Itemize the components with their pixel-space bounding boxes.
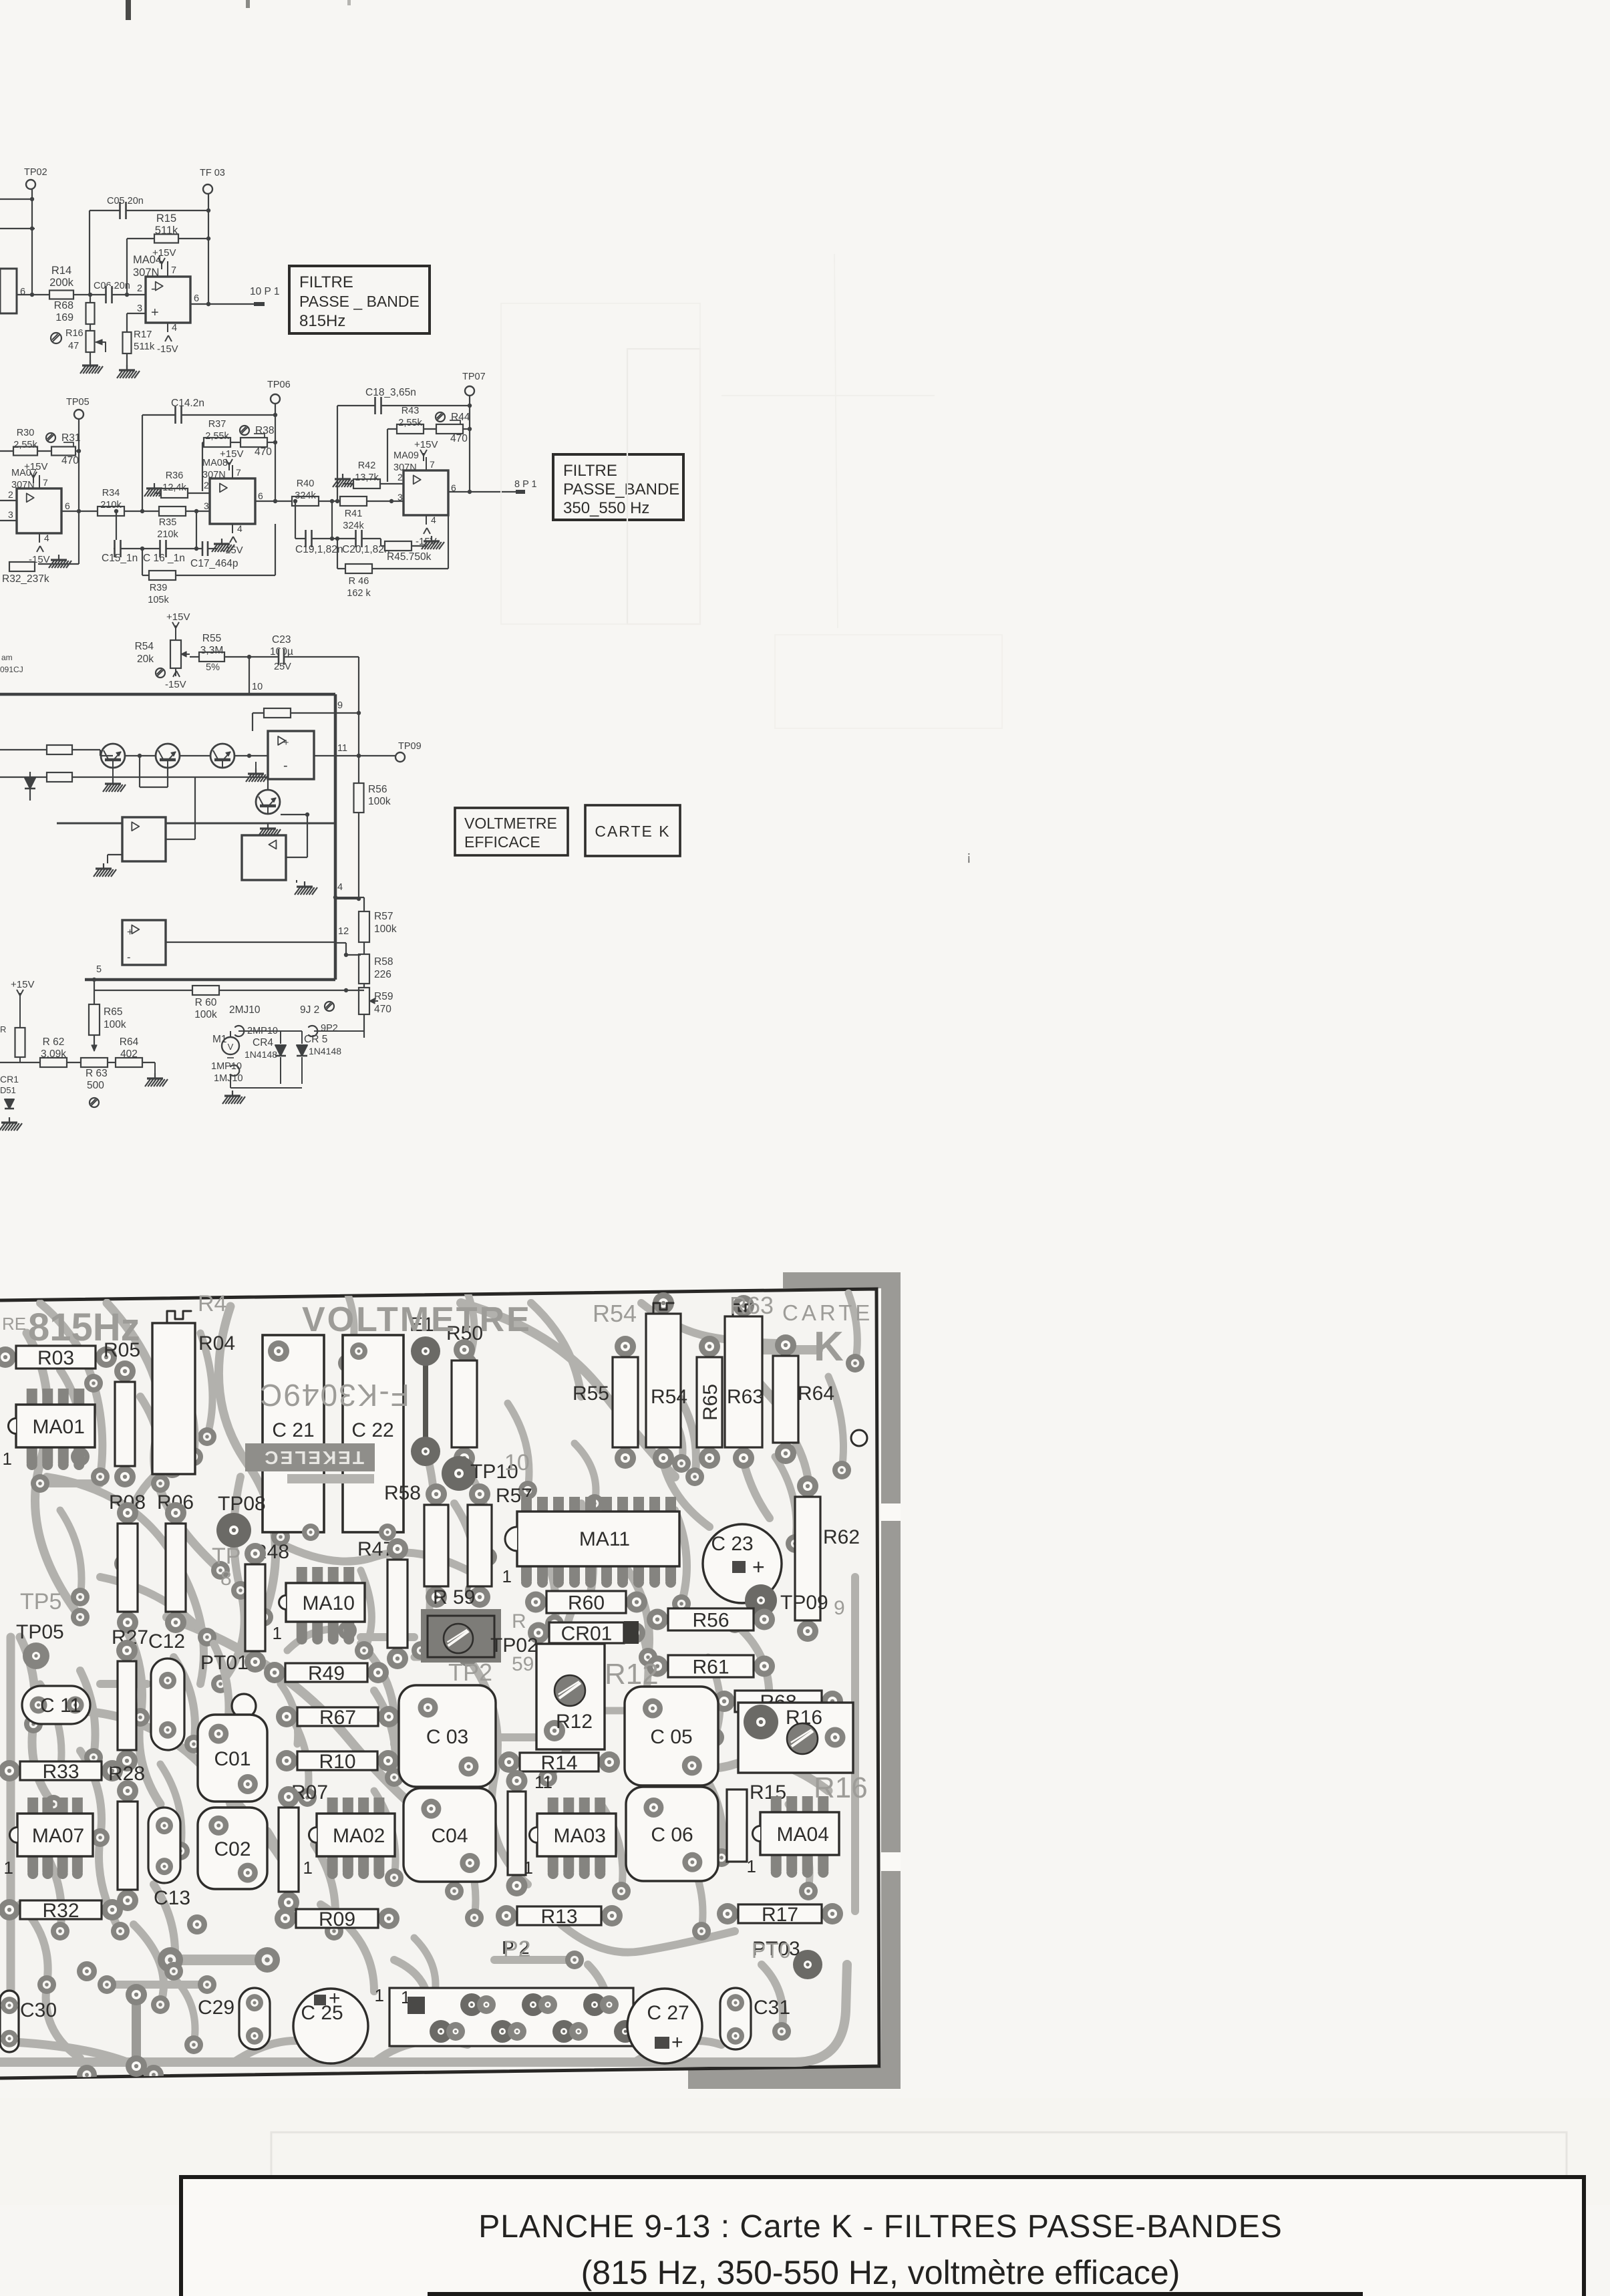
svg-text:100k: 100k bbox=[194, 1009, 217, 1020]
svg-text:am: am bbox=[1, 653, 13, 662]
svg-text:R16: R16 bbox=[65, 328, 84, 339]
svg-text:R65: R65 bbox=[699, 1384, 721, 1421]
svg-text:8 P 1: 8 P 1 bbox=[514, 479, 537, 490]
svg-text:1: 1 bbox=[375, 1985, 384, 2005]
svg-text:CR1: CR1 bbox=[0, 1074, 19, 1085]
svg-text:10: 10 bbox=[252, 682, 263, 692]
svg-text:R17: R17 bbox=[134, 329, 152, 340]
svg-text:R36: R36 bbox=[166, 470, 184, 481]
svg-text:R58: R58 bbox=[384, 1482, 421, 1504]
svg-text:R17: R17 bbox=[762, 1904, 798, 1926]
svg-text:R61: R61 bbox=[692, 1656, 729, 1678]
svg-text:4: 4 bbox=[44, 533, 49, 543]
svg-text:R 59: R 59 bbox=[433, 1586, 475, 1608]
svg-text:-: - bbox=[127, 952, 131, 964]
svg-text:R44: R44 bbox=[451, 412, 470, 423]
svg-text:EFFICACE: EFFICACE bbox=[464, 833, 540, 851]
svg-text:R15: R15 bbox=[156, 212, 176, 225]
svg-text:2,55k: 2,55k bbox=[13, 440, 37, 450]
svg-text:5%: 5% bbox=[206, 662, 220, 673]
svg-text:P2: P2 bbox=[503, 1936, 531, 1962]
svg-text:R32: R32 bbox=[42, 1900, 79, 1922]
svg-text:1: 1 bbox=[4, 1858, 13, 1878]
svg-text:100k: 100k bbox=[368, 796, 391, 807]
svg-text:¡: ¡ bbox=[967, 849, 971, 864]
svg-text:TP: TP bbox=[212, 1544, 240, 1569]
svg-text:R65: R65 bbox=[104, 1006, 122, 1018]
svg-text:R: R bbox=[512, 1610, 526, 1632]
svg-text:TP05: TP05 bbox=[66, 397, 90, 408]
svg-text:1: 1 bbox=[524, 1858, 533, 1878]
svg-text:-: - bbox=[151, 281, 156, 296]
svg-text:R39: R39 bbox=[150, 583, 168, 593]
svg-text:VOLTMETRE: VOLTMETRE bbox=[464, 815, 557, 832]
svg-text:169: 169 bbox=[55, 312, 73, 323]
svg-text:307N: 307N bbox=[11, 480, 35, 490]
svg-text:R31: R31 bbox=[61, 432, 80, 444]
svg-text:5: 5 bbox=[96, 964, 102, 975]
svg-text:CARTE: CARTE bbox=[782, 1300, 873, 1325]
svg-text:PT0: PT0 bbox=[752, 1939, 791, 1963]
svg-text:C 06: C 06 bbox=[651, 1824, 693, 1846]
svg-text:R10: R10 bbox=[319, 1751, 355, 1773]
svg-text:9J 2: 9J 2 bbox=[300, 1004, 319, 1016]
svg-text:13,7k: 13,7k bbox=[355, 472, 379, 483]
svg-text:3: 3 bbox=[397, 492, 403, 503]
svg-text:350_550 Hz: 350_550 Hz bbox=[563, 499, 649, 517]
svg-text:25V: 25V bbox=[274, 662, 291, 672]
svg-text:9: 9 bbox=[337, 700, 343, 711]
svg-text:20k: 20k bbox=[137, 654, 154, 665]
svg-text:C15_1n: C15_1n bbox=[102, 553, 138, 564]
svg-text:R33: R33 bbox=[42, 1761, 79, 1783]
svg-text:R34: R34 bbox=[102, 488, 120, 498]
svg-text:R14: R14 bbox=[51, 265, 71, 277]
svg-text:TP09: TP09 bbox=[780, 1592, 828, 1614]
svg-text:R: R bbox=[0, 1024, 6, 1034]
svg-text:-15V: -15V bbox=[416, 536, 437, 547]
svg-text:R03: R03 bbox=[37, 1347, 74, 1369]
svg-text:105k: 105k bbox=[148, 595, 169, 605]
svg-text:7: 7 bbox=[171, 265, 176, 276]
svg-text:C18_3,65n: C18_3,65n bbox=[365, 387, 416, 398]
svg-text:1: 1 bbox=[502, 1566, 512, 1586]
svg-text:12,4k: 12,4k bbox=[162, 482, 186, 493]
svg-text:4: 4 bbox=[337, 882, 343, 893]
svg-text:D51: D51 bbox=[0, 1085, 16, 1095]
svg-text:10: 10 bbox=[504, 1450, 530, 1475]
svg-text:2: 2 bbox=[204, 480, 209, 490]
svg-text:2: 2 bbox=[137, 283, 142, 294]
svg-text:+15V: +15V bbox=[166, 611, 190, 623]
svg-text:3: 3 bbox=[137, 303, 142, 314]
svg-text:R56: R56 bbox=[368, 784, 387, 795]
svg-text:R16: R16 bbox=[814, 1771, 868, 1804]
svg-text:K: K bbox=[814, 1324, 844, 1370]
svg-text:3,09k: 3,09k bbox=[41, 1048, 66, 1060]
svg-text:C 16 _1n: C 16 _1n bbox=[143, 553, 185, 564]
svg-text:MA01: MA01 bbox=[33, 1416, 85, 1438]
svg-text:C23: C23 bbox=[272, 634, 291, 645]
svg-text:R64: R64 bbox=[798, 1383, 834, 1405]
svg-text:C 27: C 27 bbox=[647, 2002, 689, 2024]
svg-text:TP05: TP05 bbox=[16, 1621, 64, 1643]
svg-text:+: + bbox=[752, 1555, 765, 1579]
svg-text:511k: 511k bbox=[155, 225, 178, 237]
svg-text:470: 470 bbox=[255, 446, 272, 458]
svg-text:6: 6 bbox=[258, 490, 263, 501]
svg-text:+15V: +15V bbox=[414, 439, 438, 450]
svg-text:100k: 100k bbox=[104, 1019, 126, 1030]
svg-text:47: 47 bbox=[68, 341, 79, 351]
svg-text:3: 3 bbox=[8, 509, 13, 520]
svg-text:V: V bbox=[228, 1042, 234, 1052]
svg-text:511k: 511k bbox=[134, 341, 155, 352]
svg-text:324k: 324k bbox=[295, 490, 316, 501]
svg-text:+: + bbox=[671, 2031, 683, 2053]
svg-text:R56: R56 bbox=[692, 1609, 729, 1631]
svg-text:R60: R60 bbox=[568, 1592, 605, 1614]
svg-text:TEKELEC: TEKELEC bbox=[263, 1447, 364, 1468]
svg-text:2: 2 bbox=[8, 489, 13, 500]
svg-text:-: - bbox=[283, 758, 288, 773]
svg-text:R38: R38 bbox=[255, 425, 274, 436]
svg-text:C05 20n: C05 20n bbox=[107, 196, 144, 206]
svg-text:C 23: C 23 bbox=[711, 1533, 753, 1555]
svg-text:1N4148: 1N4148 bbox=[309, 1046, 341, 1056]
svg-text:324k: 324k bbox=[343, 521, 364, 531]
svg-text:R43: R43 bbox=[401, 406, 420, 416]
svg-text:307N: 307N bbox=[202, 470, 226, 480]
svg-text:R 46: R 46 bbox=[349, 576, 369, 587]
svg-text:+: + bbox=[151, 305, 159, 320]
svg-text:TP08: TP08 bbox=[218, 1493, 266, 1515]
svg-text:RE: RE bbox=[2, 1314, 26, 1334]
svg-text:R04: R04 bbox=[198, 1332, 235, 1354]
svg-text:C 05: C 05 bbox=[650, 1726, 692, 1748]
svg-text:+15V: +15V bbox=[220, 448, 243, 460]
svg-text:FILTRE: FILTRE bbox=[563, 462, 617, 480]
svg-text:11: 11 bbox=[337, 743, 347, 754]
svg-text:C02: C02 bbox=[214, 1838, 251, 1860]
svg-text:+15V: +15V bbox=[24, 461, 47, 472]
svg-text:815Hz: 815Hz bbox=[28, 1306, 140, 1349]
svg-text:59: 59 bbox=[512, 1653, 534, 1675]
svg-text:210k: 210k bbox=[100, 500, 122, 511]
svg-text:+: + bbox=[283, 738, 289, 748]
svg-text:+: + bbox=[127, 927, 133, 938]
svg-text:6: 6 bbox=[65, 500, 70, 511]
svg-text:+15V: +15V bbox=[11, 979, 34, 990]
svg-text:-15V: -15V bbox=[157, 343, 178, 355]
svg-text:TP09: TP09 bbox=[398, 741, 422, 752]
svg-text:9: 9 bbox=[834, 1597, 845, 1619]
svg-text:162 k: 162 k bbox=[347, 588, 371, 599]
svg-text:MA10: MA10 bbox=[303, 1592, 355, 1614]
svg-text:200k: 200k bbox=[49, 277, 74, 289]
svg-text:R59: R59 bbox=[374, 991, 393, 1002]
svg-text:MA04: MA04 bbox=[777, 1824, 829, 1846]
svg-text:C04: C04 bbox=[431, 1825, 468, 1847]
svg-text:11: 11 bbox=[534, 1772, 552, 1792]
svg-text:2,55k: 2,55k bbox=[205, 431, 229, 442]
svg-text:470: 470 bbox=[450, 433, 468, 444]
svg-text:12: 12 bbox=[338, 926, 349, 937]
svg-text:R63: R63 bbox=[727, 1386, 764, 1408]
svg-text:R40: R40 bbox=[297, 478, 315, 489]
svg-text:TP5: TP5 bbox=[20, 1589, 61, 1614]
svg-text:(815 Hz, 350-550 Hz, voltmètr: (815 Hz, 350-550 Hz, voltmètre efficace) bbox=[581, 2254, 1180, 2291]
svg-text:1MJ10: 1MJ10 bbox=[214, 1073, 243, 1084]
svg-text:R55: R55 bbox=[573, 1383, 609, 1405]
svg-text:MA11: MA11 bbox=[579, 1528, 630, 1550]
svg-text:R12: R12 bbox=[605, 1658, 659, 1691]
svg-text:MA03: MA03 bbox=[554, 1825, 606, 1847]
svg-text:TP07: TP07 bbox=[462, 372, 486, 382]
svg-text:C 03: C 03 bbox=[426, 1726, 468, 1748]
svg-text:CARTE K: CARTE K bbox=[595, 823, 670, 840]
svg-text:R41: R41 bbox=[345, 509, 363, 519]
svg-text:R13: R13 bbox=[540, 1906, 577, 1928]
svg-text:2,55k: 2,55k bbox=[398, 418, 422, 428]
svg-text:PLANCHE 9-13 : Carte K - FILTR: PLANCHE 9-13 : Carte K - FILTRES PASSE-B… bbox=[478, 2209, 1283, 2245]
svg-text:226: 226 bbox=[374, 969, 391, 980]
svg-text:CR01: CR01 bbox=[561, 1622, 613, 1644]
svg-text:210k: 210k bbox=[157, 529, 178, 540]
svg-text:402: 402 bbox=[120, 1048, 138, 1060]
svg-text:1: 1 bbox=[273, 1623, 282, 1643]
svg-text:100k: 100k bbox=[374, 923, 397, 935]
svg-text:C 11: C 11 bbox=[40, 1695, 81, 1717]
svg-text:1: 1 bbox=[747, 1856, 756, 1876]
svg-text:R 62: R 62 bbox=[43, 1036, 65, 1048]
svg-text:2MJ10: 2MJ10 bbox=[229, 1004, 261, 1016]
svg-text:9P2: 9P2 bbox=[321, 1023, 338, 1034]
svg-text:R42: R42 bbox=[358, 460, 376, 471]
svg-text:470: 470 bbox=[374, 1004, 391, 1015]
svg-text:8: 8 bbox=[220, 1568, 232, 1590]
svg-text:10 P 1: 10 P 1 bbox=[250, 286, 280, 297]
svg-text:3: 3 bbox=[204, 500, 209, 511]
svg-text:R 63: R 63 bbox=[86, 1068, 108, 1079]
svg-text:R54: R54 bbox=[135, 641, 154, 652]
svg-text:C14.2n: C14.2n bbox=[171, 398, 204, 409]
svg-text:6: 6 bbox=[194, 293, 199, 304]
svg-text:2: 2 bbox=[397, 472, 403, 482]
svg-text:1: 1 bbox=[303, 1858, 313, 1878]
svg-text:C30: C30 bbox=[20, 1999, 57, 2021]
svg-text:MA09: MA09 bbox=[393, 450, 419, 461]
svg-text:FILTRE: FILTRE bbox=[299, 273, 353, 291]
svg-text:R62: R62 bbox=[823, 1526, 860, 1548]
svg-text:F-K3049C: F-K3049C bbox=[259, 1378, 410, 1413]
svg-text:7: 7 bbox=[430, 459, 435, 470]
svg-text:R49: R49 bbox=[308, 1663, 345, 1685]
svg-text:R16: R16 bbox=[786, 1707, 822, 1729]
svg-text:7: 7 bbox=[43, 477, 48, 488]
svg-text:R37: R37 bbox=[208, 419, 226, 430]
svg-text:R68: R68 bbox=[54, 300, 73, 311]
svg-text:CR4: CR4 bbox=[253, 1037, 273, 1048]
svg-text:C17_464p: C17_464p bbox=[190, 558, 238, 569]
svg-text:TP06: TP06 bbox=[267, 380, 291, 390]
svg-text:C01: C01 bbox=[214, 1748, 251, 1770]
svg-text:R09: R09 bbox=[319, 1908, 355, 1930]
svg-text:VOLTMETRE: VOLTMETRE bbox=[302, 1300, 532, 1339]
svg-text:PASSE_BANDE: PASSE_BANDE bbox=[563, 480, 679, 498]
svg-text:PT01: PT01 bbox=[200, 1652, 249, 1674]
svg-text:R58: R58 bbox=[374, 956, 393, 968]
svg-text:C 21: C 21 bbox=[272, 1419, 314, 1441]
svg-text:R55: R55 bbox=[202, 633, 221, 644]
svg-text:R30: R30 bbox=[17, 428, 35, 438]
svg-text:R35: R35 bbox=[159, 517, 177, 528]
svg-text:-15V: -15V bbox=[165, 679, 186, 690]
svg-text:R64: R64 bbox=[120, 1036, 139, 1048]
svg-text:R4: R4 bbox=[198, 1291, 226, 1316]
svg-text:C19,1,82n: C19,1,82n bbox=[295, 544, 343, 555]
svg-text:R67: R67 bbox=[319, 1707, 356, 1729]
svg-text:C12: C12 bbox=[148, 1630, 185, 1653]
svg-text:R63: R63 bbox=[730, 1292, 774, 1319]
svg-text:091CJ: 091CJ bbox=[0, 665, 23, 674]
svg-text:C31: C31 bbox=[754, 1997, 790, 2019]
svg-text:TP02: TP02 bbox=[24, 167, 47, 178]
svg-text:470: 470 bbox=[61, 455, 79, 466]
svg-text:307N: 307N bbox=[133, 267, 159, 279]
svg-text:4: 4 bbox=[431, 515, 436, 525]
svg-text:R14: R14 bbox=[540, 1752, 577, 1774]
svg-text:R45.750k: R45.750k bbox=[387, 551, 432, 563]
svg-text:C13: C13 bbox=[154, 1887, 190, 1909]
svg-text:C 22: C 22 bbox=[351, 1419, 393, 1441]
svg-text:+15V: +15V bbox=[152, 247, 176, 259]
svg-text:PASSE _ BANDE: PASSE _ BANDE bbox=[299, 293, 420, 310]
svg-text:TP2: TP2 bbox=[448, 1659, 492, 1686]
svg-text:MA07: MA07 bbox=[32, 1825, 84, 1847]
svg-text:C29: C29 bbox=[198, 1997, 234, 2019]
svg-text:R32_237k: R32_237k bbox=[2, 573, 49, 585]
svg-text:1: 1 bbox=[3, 1449, 12, 1469]
svg-text:MA02: MA02 bbox=[333, 1825, 385, 1847]
svg-text:R12: R12 bbox=[556, 1711, 593, 1733]
svg-text:R54: R54 bbox=[651, 1386, 687, 1408]
svg-text:7: 7 bbox=[236, 467, 241, 478]
svg-text:R 60: R 60 bbox=[195, 997, 217, 1008]
svg-text:500: 500 bbox=[87, 1080, 104, 1091]
svg-text:R54: R54 bbox=[593, 1300, 637, 1327]
svg-text:4: 4 bbox=[237, 523, 243, 534]
svg-text:3,3M: 3,3M bbox=[200, 645, 223, 656]
svg-text:6: 6 bbox=[20, 287, 25, 297]
svg-text:R57: R57 bbox=[374, 911, 393, 922]
svg-text:+: + bbox=[329, 1987, 341, 2009]
svg-text:4: 4 bbox=[172, 323, 177, 333]
svg-text:1N4148: 1N4148 bbox=[245, 1049, 277, 1060]
svg-text:TF 03: TF 03 bbox=[200, 168, 225, 178]
svg-text:815Hz: 815Hz bbox=[299, 312, 345, 330]
